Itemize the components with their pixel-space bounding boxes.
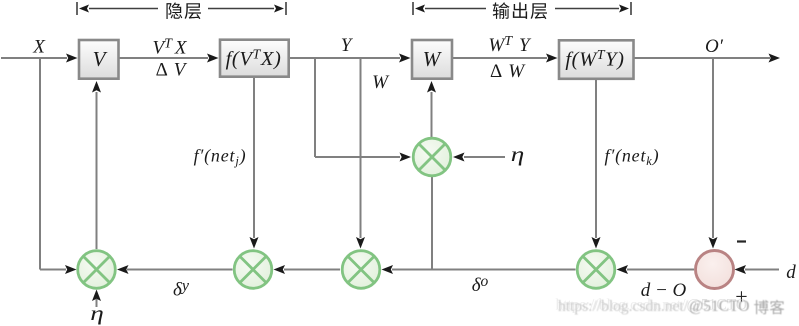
output-layer span bracket xyxy=(413,2,631,15)
svg-text:ΔW: ΔW xyxy=(490,61,526,82)
wire input X to V xyxy=(1,54,78,63)
svg-text:η: η xyxy=(90,302,104,325)
wire f(WTY) to output O xyxy=(633,54,780,63)
wire eta multiplier up into W xyxy=(427,81,436,138)
multiplier node f-prime(net_j) xyxy=(234,251,272,289)
multiplier node f-prime(net_k) xyxy=(577,251,615,289)
wire f(VTX) down to f-prime node xyxy=(250,77,259,249)
wire f(WTY) down to f-prime node xyxy=(592,79,601,249)
wire W to f(WTY) xyxy=(452,54,558,63)
wire eta multiplier down to bottom line xyxy=(431,176,433,270)
wire to leftmost multiplier xyxy=(117,265,233,274)
svg-text:O′: O′ xyxy=(705,36,724,57)
label output layer (CJK) xyxy=(493,2,547,19)
watermark csdn blog url (ghost copy) xyxy=(556,297,748,314)
multiplier node Y backprop xyxy=(342,251,380,289)
wire O branch down to subtractor xyxy=(709,58,718,249)
svg-text:W: W xyxy=(372,72,390,93)
wire X branch down to bottom row xyxy=(40,58,77,274)
box f(VTX) xyxy=(220,40,289,77)
wire Y-branch node to delta-y node xyxy=(274,265,341,274)
svg-text:V: V xyxy=(93,47,108,71)
wire Y branch down to bottom node xyxy=(356,58,365,249)
wire Y branch to eta multiplier xyxy=(315,58,411,162)
multiplier node eta x delta-o (mid) xyxy=(413,138,451,176)
svg-text:f(WTY): f(WTY) xyxy=(565,48,624,71)
wire delta-y node up into V xyxy=(92,81,101,249)
watermark csdn blog url xyxy=(558,298,784,315)
svg-text:https://blog.csdn.net/: https://blog.csdn.net/ xyxy=(558,298,689,315)
label minus sign xyxy=(737,240,746,242)
wire f(VTX) to W xyxy=(289,54,411,63)
wire d into subtractor xyxy=(735,265,780,274)
wire delta-o node to Y-branch node xyxy=(382,265,576,274)
svg-text:@51CTO: @51CTO xyxy=(689,298,750,315)
svg-text:W: W xyxy=(423,47,443,71)
svg-text:X: X xyxy=(32,37,46,58)
box W xyxy=(412,40,452,79)
multiplier node delta-y output (leftmost) xyxy=(78,251,116,289)
hidden-layer span bracket xyxy=(77,2,286,15)
svg-text:η: η xyxy=(511,143,525,166)
label hidden layer (CJK) xyxy=(166,3,201,20)
box V xyxy=(79,40,119,79)
box f(WTY) xyxy=(559,40,634,79)
wire eta up into leftmost multiplier xyxy=(92,290,101,308)
wire eta into mid multiplier xyxy=(453,153,505,162)
subtractor node d-O (pink) xyxy=(696,251,734,289)
wire subtractor to delta-o node xyxy=(617,265,695,274)
wire V to f(VTX) xyxy=(119,54,219,63)
svg-text:d: d xyxy=(786,262,796,283)
